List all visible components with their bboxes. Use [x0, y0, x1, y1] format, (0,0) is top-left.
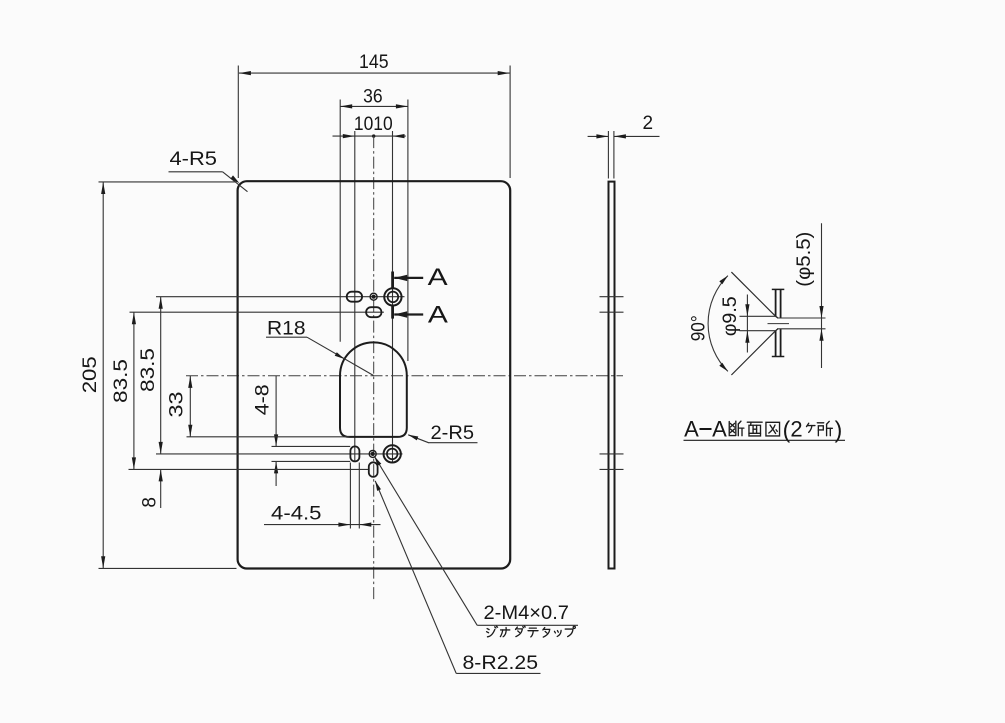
countersink cone edges	[776, 316, 778, 318]
countersunk hole bottom (double circle)	[384, 445, 401, 462]
dimension 205 (left overall height)	[79, 182, 237, 569]
label jikadate tap (katakana)	[487, 626, 576, 637]
svg-text:4-8: 4-8	[253, 384, 274, 415]
horizontal centerline of plate	[186, 375, 623, 377]
side view hole tick row B1	[600, 453, 624, 455]
dimension 33 (centerline to slot bottom)	[167, 376, 193, 437]
svg-text:33: 33	[167, 392, 188, 418]
countersunk hole top (double circle)	[384, 288, 401, 305]
svg-text:36: 36	[363, 86, 383, 107]
dimension 83.5 (outer, rows T2 to B2)	[111, 312, 136, 469]
svg-text:2: 2	[643, 113, 654, 134]
caption underline	[684, 439, 846, 441]
svg-text:8-R2.25: 8-R2.25	[463, 652, 539, 674]
tap hole M4 bottom (dot)	[369, 450, 376, 457]
section cut line A-A upper bar	[391, 272, 394, 288]
svg-text:2: 2	[790, 417, 802, 442]
extension line row T2	[130, 311, 384, 313]
svg-text:): )	[835, 417, 843, 443]
svg-text:A: A	[428, 264, 449, 291]
svg-text:83.5: 83.5	[111, 359, 132, 403]
countersink angle legs 90 deg	[731, 272, 775, 316]
keyhole slot R18 outline	[340, 342, 407, 437]
section plate right face (with hole gap)	[780, 290, 782, 318]
svg-text:2-M4×0.7: 2-M4×0.7	[484, 602, 570, 624]
dimension 4-8 (slot length)	[253, 376, 279, 486]
extension line slot B1 bottom edge	[272, 460, 351, 462]
dimension 8 (bottom row spacing)	[140, 469, 163, 508]
angle dimension arc 90	[708, 276, 728, 372]
dimension phi9.5 (countersink dia)	[720, 295, 776, 353]
label 4-R5 with leader	[169, 148, 248, 192]
section plate left face (with countersink gap)	[775, 290, 777, 317]
dimension (phi5.5) hole dia	[794, 223, 824, 368]
svg-text:4-R5: 4-R5	[170, 148, 218, 170]
extension line row T1	[156, 296, 405, 298]
section hole centerline	[768, 323, 790, 325]
svg-text:A: A	[684, 417, 699, 442]
tap hole M4 top (dot)	[370, 293, 377, 300]
svg-text:φ9.5: φ9.5	[720, 296, 741, 336]
slot B1 (vertical oblong hole)	[350, 446, 359, 461]
slot T1 (oblong hole top row)	[347, 292, 362, 302]
label 2-M4x0.7 with leader	[374, 456, 578, 625]
svg-text:R18: R18	[267, 317, 306, 339]
slot B2 (vertical oblong hole)	[369, 462, 378, 477]
svg-text:2-R5: 2-R5	[431, 422, 475, 444]
slot T2 (oblong hole second row)	[366, 307, 381, 317]
label 8-R2.25 with leader	[375, 481, 540, 674]
side view hole tick row T1	[600, 296, 624, 298]
svg-text:1010: 1010	[354, 114, 393, 135]
svg-text:90°: 90°	[689, 315, 710, 341]
svg-text:205: 205	[79, 356, 101, 393]
svg-text:A: A	[712, 417, 727, 442]
label R18 with leader	[266, 317, 374, 375]
section arrow A lower	[394, 302, 449, 329]
section cut line A-A lower bar	[391, 306, 394, 319]
dimension 145 (top overall width)	[238, 52, 510, 178]
dimension 83.5 (inner, rows T1 to B1)	[138, 297, 163, 454]
section plate end caps	[772, 288, 785, 290]
svg-text:A: A	[428, 302, 449, 329]
svg-text:(φ5.5): (φ5.5)	[794, 232, 815, 287]
dimension 36 (hole group width)	[340, 86, 408, 361]
extension line slot B1 top edge	[272, 445, 351, 447]
svg-text:8: 8	[140, 497, 161, 508]
extension line slot bottom	[187, 436, 350, 438]
dimension 2 (thickness)	[588, 113, 660, 179]
extension line row B1	[156, 453, 403, 455]
vertical centerline of plate	[373, 136, 375, 601]
plate outline (front view, rounded rect 4-R5)	[238, 181, 511, 568]
dimension 10 10 (hole offsets from centerline)	[333, 114, 406, 462]
side view hole tick row B2	[600, 468, 624, 470]
extension line row B2	[129, 468, 369, 470]
side view hole tick row T2	[600, 311, 624, 313]
svg-text:145: 145	[359, 52, 389, 73]
hole bore lines / phi5.5 extension	[777, 317, 826, 319]
svg-text:4-4.5: 4-4.5	[271, 502, 322, 524]
section arrow A upper	[394, 264, 448, 291]
dimension 4-4.5 (slot width)	[264, 463, 381, 529]
side view plate outline	[609, 182, 615, 569]
label 2-R5 with leader	[408, 422, 477, 444]
svg-text:83.5: 83.5	[138, 348, 159, 392]
